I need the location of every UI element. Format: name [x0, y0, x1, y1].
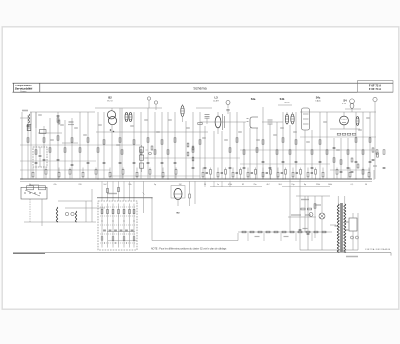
wire vertical net 5 [43, 126, 45, 179]
switch wafer wire 1 [101, 204, 103, 248]
resistor Rb20 on bus [255, 170, 257, 175]
switch small box a [27, 186, 34, 190]
switch contact capacitor Cs2 [109, 229, 112, 231]
component label smudge 6 [130, 125, 134, 126]
component label smudge 12 [238, 131, 242, 132]
wire psu v3 [314, 196, 316, 238]
wire vertical net 30 [229, 112, 231, 179]
switch wafer wire 3 [112, 204, 114, 248]
capacitor C12 [133, 162, 136, 164]
component label smudge 17 [323, 121, 327, 122]
tone network resistor a [151, 146, 153, 150]
svg-text:S4c: S4c [316, 96, 321, 100]
capacitor Cr1 [372, 159, 375, 161]
bus junction 1 [21, 178, 22, 179]
resistor Rb9 on bus [136, 172, 138, 177]
switch inner rail b [108, 240, 137, 242]
wire vertical net 31 [236, 112, 238, 179]
svg-text:EC 92: EC 92 [107, 100, 112, 102]
padder C2 [350, 99, 355, 104]
mains transformer TR primary [337, 204, 339, 252]
switch wafer wire 4 [118, 204, 120, 248]
resistor Rh8 heater row [298, 231, 302, 233]
tube V2 ECC85 upper [107, 111, 115, 119]
resistor Rb15 on bus [217, 172, 219, 177]
label FM antenna [22, 110, 28, 112]
resistor R13 [119, 138, 121, 142]
bus bead junction 5 [233, 179, 234, 180]
component label smudge 1 [38, 114, 42, 115]
bus bead junction 8 [255, 179, 256, 180]
label B1 [69, 121, 74, 123]
bus bead junction 13 [293, 179, 294, 180]
resistor Rh7 heater row [290, 231, 294, 233]
resistor Rp3 [314, 204, 316, 208]
wire grid row left [20, 117, 30, 119]
wire right top stub [345, 108, 361, 110]
component label smudge 9 [186, 127, 190, 128]
component label smudge 8 [168, 119, 172, 120]
wire psu right rail [357, 213, 359, 250]
wire vertical net 26 [199, 112, 201, 179]
resistor Rr1 [372, 148, 374, 152]
svg-text:1M: 1M [179, 184, 182, 186]
wire cathode row left [20, 169, 110, 171]
capacitor Cb7 on bus row [296, 172, 298, 174]
resistor Rb2 on bus [45, 170, 47, 175]
right edge marks [373, 170, 375, 180]
resistor R40 [362, 150, 364, 154]
capacitor C17 [229, 167, 232, 169]
resistor Rb31 on bus [349, 172, 351, 177]
wire switch top rail [97, 197, 152, 199]
capacitor C20 [282, 161, 285, 163]
resistor Rb32 on bus [362, 170, 364, 175]
bus junction 2 [57, 178, 58, 179]
resistor Rb22 on bus [270, 170, 272, 175]
resistor R34 [319, 140, 321, 144]
magic eye grid resistor [189, 194, 191, 198]
resistor Rh9 heater row [306, 231, 310, 233]
wire heater stub 5 [311, 233, 313, 241]
resistor Rb14 on bus [210, 170, 212, 175]
ground bus lower [20, 180, 372, 182]
component label smudge 22 [74, 127, 78, 128]
coil oval right of V5 [356, 117, 359, 126]
switch contact resistor Rs6 [129, 209, 131, 213]
capacitor Cb4 on bus row [251, 172, 253, 174]
bus junction 4 [133, 178, 134, 179]
switch contact dot 1 [101, 220, 102, 221]
tube V3 grid bars [222, 114, 224, 130]
wire vertical net 25 [192, 112, 194, 179]
resistor Rb4 on bus [69, 170, 71, 175]
resistor Rx2 [357, 164, 359, 168]
wire HT rail right [240, 149, 372, 151]
svg-text:220k: 220k [316, 184, 320, 186]
resistor Rb1 on bus [32, 172, 34, 177]
resistor R28 [262, 140, 264, 144]
switch contact capacitor Cs6 [131, 229, 134, 231]
resistor Rb12 on bus [175, 170, 177, 175]
switch contact capacitor Cs1 [103, 229, 106, 231]
header bottom rule [13, 91, 394, 93]
switch wafer row 4 [100, 233, 136, 235]
wire left bias [20, 160, 96, 162]
wire output row [300, 136, 376, 138]
coil L5 choke [56, 207, 58, 222]
component on lower rail [40, 130, 47, 134]
capacitor Cb5 on bus row [266, 172, 268, 174]
component label smudge 5 [116, 144, 120, 145]
tuning gang cap [39, 155, 42, 157]
resistor Rh1 heater row [242, 231, 246, 233]
resistor Rb19 on bus [247, 172, 249, 177]
component label smudge 2 [60, 124, 64, 125]
wire psu v2 [307, 196, 309, 250]
resistor R33 [311, 150, 313, 154]
switch wafer row 2 [100, 215, 136, 217]
component label smudge 7 [156, 131, 160, 132]
resistor R42 [376, 150, 378, 154]
switch feed resistor a [118, 187, 120, 191]
AF coupling cluster box c [187, 152, 189, 156]
wire v lower a [85, 201, 87, 222]
wire heater stub 2 [263, 233, 265, 241]
resistor R27 [256, 148, 258, 152]
switch feed resistor b [107, 188, 109, 192]
switch unit label [107, 193, 117, 194]
coil oval pair b [291, 114, 294, 124]
svg-text:EF 85: EF 85 [285, 102, 290, 104]
tube V2 ECC85 lower [108, 117, 116, 125]
switch contact dot 6 [115, 242, 116, 243]
capacitor C29 [340, 171, 343, 173]
AF coupling cluster box a [187, 143, 189, 147]
component label smudge 3 [83, 134, 87, 135]
resistor R39 [355, 138, 357, 142]
bus bead junction 4 [225, 179, 226, 180]
coil L6 choke [75, 211, 77, 222]
svg-text:Schéma: Schéma [193, 86, 206, 90]
wire vertical net 43 [319, 112, 321, 179]
psu terminal a [351, 236, 354, 239]
capacitor C5 [35, 162, 38, 164]
resistor R21 [174, 138, 176, 142]
wire vertical net 39 [289, 125, 291, 179]
svg-text:F 6F 72 A - F 6F 74 A 03-5: F 6F 72 A - F 6F 74 A 03-56 [365, 248, 390, 251]
component label smudge 15 [293, 131, 297, 132]
capacitor C8 [71, 164, 74, 166]
capacitor C7 [57, 159, 60, 161]
resistor Rb17 on bus [232, 172, 234, 177]
resistor R6 [57, 136, 59, 140]
svg-text:S4a: S4a [251, 97, 256, 101]
capacitor C16 [192, 167, 195, 169]
wire vertical net 4 [35, 112, 37, 179]
component label smudge 18 [336, 149, 340, 150]
rectifier box [349, 218, 357, 231]
switch contact dot 7 [126, 242, 127, 243]
bus bead junction 11 [278, 179, 279, 180]
wire vertical net 16 [121, 108, 123, 179]
coil oval pair a [285, 114, 288, 124]
switch S1 contact b [154, 101, 157, 104]
resistor R5 [57, 118, 59, 122]
resistor R19 [161, 140, 163, 144]
resistor Rb21 on bus [262, 172, 264, 177]
switch small box b [39, 186, 46, 190]
resistor R30 [282, 138, 284, 142]
magic eye feed wire [194, 181, 196, 204]
AF coupling cluster box d [192, 157, 194, 161]
mains transformer taps [335, 225, 339, 227]
resistor R14 [121, 150, 123, 154]
waveband switch dashed box [98, 201, 137, 250]
resistor R15 [133, 140, 135, 144]
svg-text:Serviçeblätt: Serviçeblätt [15, 86, 34, 90]
mains voltage label [346, 256, 358, 258]
wire lower-left h1 [58, 200, 92, 202]
capacitor Cb8 on bus row [311, 172, 313, 174]
wire left lower rail [38, 132, 62, 134]
capacitor C14 [161, 162, 164, 164]
capacitor Cp1 [299, 229, 302, 231]
capacitor Cb2 on bus row [221, 172, 223, 174]
component label smudge 11 [224, 139, 228, 140]
resistor R12 [103, 140, 105, 144]
switch contact dot 4 [133, 220, 134, 221]
switch lower resistor Rt2 [112, 237, 114, 241]
volume potentiometer section b [140, 155, 144, 160]
psu labels [301, 199, 309, 200]
switch contact capacitor Cs5 [125, 229, 128, 231]
capacitor C19 [262, 161, 265, 163]
resistor R11 [97, 148, 99, 152]
component label smudge 20 [366, 117, 370, 118]
resistor R29 [276, 150, 278, 154]
resistor R35 [326, 150, 328, 154]
switch drop from bus 6 [129, 181, 131, 201]
resistor R17 [147, 138, 149, 142]
footer rule left dark segment [13, 252, 45, 254]
pilot lamp LP1 [319, 213, 325, 219]
bus junction 3 [97, 178, 98, 179]
bus bead junction 6 [240, 179, 241, 180]
bus bead junction 10 [270, 179, 271, 180]
capacitor C25 [383, 167, 386, 169]
resistor Rb7 on bus [109, 172, 111, 177]
bus bead junction 9 [263, 179, 264, 180]
switch drop from bus 5 [123, 181, 125, 201]
bus junction 7 [243, 178, 244, 179]
resistor R32 [295, 140, 297, 144]
resistor Rb25 on bus [292, 172, 294, 177]
resistor R1 [27, 138, 29, 142]
wire psu left drop [299, 179, 301, 250]
svg-text:NOTE : Pour les différentes po: NOTE : Pour les différentes positions du… [151, 247, 227, 250]
svg-text:S4b: S4b [280, 97, 285, 101]
wire heater drop a [289, 179, 291, 232]
coil L1 core blob [27, 125, 31, 131]
resistor Rb33 on bus [368, 172, 370, 177]
mixer plates [268, 119, 273, 121]
wire vertical net 23 [174, 112, 176, 179]
switch contact resistor Rs3 [112, 209, 114, 213]
capacitor C22 [319, 161, 322, 163]
resistor Rb6 on bus [95, 170, 97, 175]
wire vertical net 34 [256, 128, 258, 179]
bus bead junction 2 [210, 179, 211, 180]
wire detector row [240, 163, 330, 165]
mains transformer core [340, 203, 342, 252]
wire cathode row mid [110, 175, 200, 177]
wire stub below bus 3 [221, 181, 223, 187]
mains transformer top leads [337, 196, 339, 204]
resistor R2 [35, 150, 37, 154]
resistor R18 [154, 150, 156, 154]
capacitor C23 [355, 161, 358, 163]
switch drop from bus 3 [112, 181, 114, 201]
switch contact resistor Rs1 [101, 209, 103, 213]
wire vertical net 19 [147, 108, 149, 179]
svg-text:1n: 1n [217, 184, 219, 186]
bus bead junction 1 [203, 179, 204, 180]
svg-text:10k: 10k [128, 184, 131, 186]
switch drop from bus 1 [101, 181, 103, 201]
switch contact capacitor Cs3 [114, 229, 117, 231]
resistor Rb24 on bus [285, 170, 287, 175]
wire vertical net 29 [221, 131, 223, 179]
wire vertical net 11 [87, 112, 89, 179]
svg-text:25n: 25n [253, 184, 256, 186]
svg-text:100k: 100k [328, 184, 332, 186]
component label smudge 23 [144, 119, 148, 120]
wire vertical net 35 [262, 107, 264, 179]
ground bus upper [20, 178, 372, 180]
capacitor Cb1 on bus row [206, 172, 208, 174]
wire vertical net 2 [27, 115, 29, 179]
wire vert eye left [143, 182, 145, 214]
pickup input box [21, 187, 47, 199]
switch wafer wire 6 [129, 204, 131, 248]
switch wafer row 3 [100, 224, 136, 226]
resistor Rb10 on bus [149, 170, 151, 175]
heater row labels [255, 236, 260, 237]
resistor Rh10 heater row [314, 231, 318, 233]
wire vertical net 32 [243, 122, 245, 179]
capacitor Cb6 on bus row [281, 172, 283, 174]
small circle switch S5 [309, 213, 313, 217]
capacitor Cx2 [351, 171, 354, 173]
IF can bracket T2 [250, 117, 258, 128]
trimmer C3 [373, 97, 377, 101]
bus bead junction 7 [248, 179, 249, 180]
wire pickup dashed [41, 199, 43, 226]
resistor R9 [79, 148, 81, 152]
resistor R23 [199, 140, 201, 144]
pickup box label [29, 184, 39, 186]
wire vertical net 42 [311, 130, 313, 179]
wire heater row [238, 231, 332, 233]
wire heater stub 1 [247, 233, 249, 241]
bus bead junction 16 [315, 179, 316, 180]
wire vertical net 50 [369, 112, 371, 179]
resistor R V3 grid [198, 123, 202, 125]
tone network circle [149, 152, 152, 155]
tube V2 socket blobs [110, 129, 112, 131]
capacitor C26 [204, 167, 207, 169]
svg-text:12 AT7: 12 AT7 [213, 99, 219, 102]
switch contact resistor Rs2 [107, 209, 109, 213]
resistor R41 [369, 138, 371, 142]
capacitor C21 [295, 161, 298, 163]
bus junction 6 [204, 178, 205, 179]
trimmer C1 [226, 101, 230, 105]
resistor R31 [289, 150, 291, 154]
wire vertical net 1 [21, 112, 23, 179]
resistor R37 [340, 160, 342, 164]
wire v lower b [91, 189, 93, 222]
switch drop from bus 2 [107, 181, 109, 201]
wire vertical net 21 [161, 112, 163, 179]
capacitor Cp2 [307, 233, 310, 235]
wire vertical net 47 [347, 138, 349, 179]
wire stub below bus 4 [229, 181, 231, 187]
wire vertical net 18 [140, 112, 142, 179]
switch contact capacitor Cs4 [120, 229, 123, 231]
svg-text:France: France [21, 90, 27, 93]
wire vertical net 13 [103, 112, 105, 179]
resistor Rb29 on bus [322, 172, 324, 177]
switch lower resistor Rt4 [133, 237, 135, 241]
switch inner rail a [107, 231, 135, 233]
wire vertical net 48 [355, 112, 357, 179]
wire right detector [330, 169, 370, 171]
resistor Rb11 on bus [162, 172, 164, 177]
wire mid rail [95, 107, 162, 109]
wire vertical net 40 [295, 112, 297, 179]
wire vertical net 24 [185, 121, 187, 179]
jack J1 [65, 212, 68, 215]
capacitor C28 [311, 167, 314, 169]
resistor Rh4 heater row [266, 231, 270, 233]
wire vertical net 37 [276, 122, 278, 179]
wire heater mid link [288, 216, 316, 218]
resistor R26 [243, 150, 245, 154]
wire vertical net 33 [249, 128, 251, 179]
resistor Rh3 heater row [258, 231, 262, 233]
wire IF link b [262, 121, 283, 123]
header top rule [13, 82, 394, 84]
tube V5 socket row [337, 133, 341, 135]
bus junction 8 [282, 178, 283, 179]
wire vertical net 44 [326, 112, 328, 179]
wire top centre stub [196, 107, 212, 109]
svg-text:6 AQ5: 6 AQ5 [315, 99, 320, 102]
wire vertical net 3 [30, 112, 32, 179]
wire vertical net 49 [362, 112, 364, 179]
header left box [13, 83, 15, 92]
mains transformer TR secondary [344, 204, 346, 252]
wire AVC line left [20, 144, 140, 146]
resistor Rp1 horizontal [301, 208, 305, 210]
resistor Rb8 on bus [122, 170, 124, 175]
wire psu bottom rail [300, 249, 358, 251]
switch wafer wire 7 [133, 204, 135, 248]
resistor Rx1 [351, 158, 353, 162]
osc coil T5 [181, 106, 184, 117]
